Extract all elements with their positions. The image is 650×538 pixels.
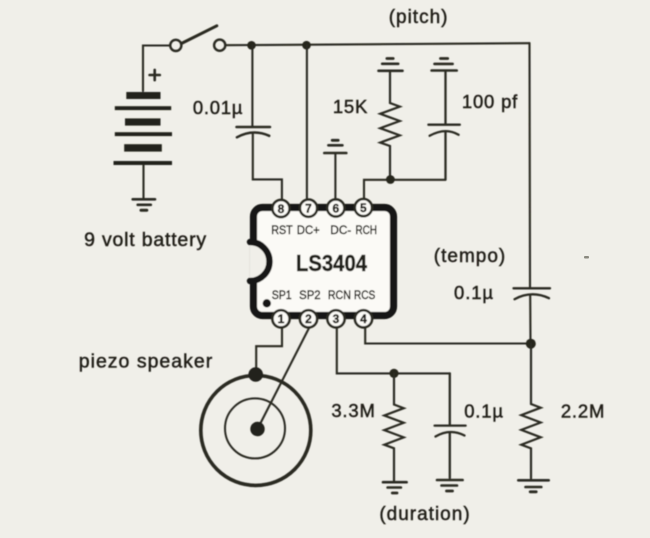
IC U1 pin1 dot (263, 299, 271, 307)
ground above capacitor C2 (points up) (432, 59, 457, 71)
wire C1 top (251, 45, 253, 126)
svg-text:(tempo): (tempo) (434, 246, 506, 267)
ground R2 (383, 482, 407, 493)
svg-text:15K: 15K (333, 96, 368, 117)
battery B1 plates (114, 92, 173, 165)
node junction top rail to C1 (247, 41, 256, 50)
wire pin5 node horizontal (364, 180, 446, 198)
node junction top rail to pin7 (302, 41, 311, 50)
svg-text:SP1: SP1 (272, 288, 292, 302)
node junction pin3 net (389, 369, 398, 378)
svg-text:3: 3 (333, 312, 340, 326)
ground battery (133, 199, 155, 210)
wire right rail upper (528, 43, 531, 288)
capacitor C4 0.1u duration (435, 373, 466, 478)
wire pin 2 to speaker center (258, 328, 310, 429)
wire pin 6 stub (334, 154, 336, 198)
svg-text:7: 7 (305, 202, 312, 216)
IC U1 notch (250, 242, 270, 281)
capacitor C3 0.1u tempo (514, 288, 551, 299)
wire pin 1 to speaker top (256, 328, 282, 369)
ground above pin 6 (points up) (324, 140, 346, 153)
svg-text:6: 6 (332, 201, 339, 215)
pin 7 (300, 200, 317, 217)
wire C1 bottom to pin 8 (253, 134, 282, 199)
wire top rail (pitch) (226, 43, 530, 45)
svg-text:0.1µ: 0.1µ (464, 401, 504, 422)
switch S1 left contact (170, 40, 181, 51)
pin 2 (300, 310, 317, 327)
svg-text:2: 2 (305, 312, 312, 326)
pin 8 (272, 200, 289, 217)
speaker center dot (250, 422, 264, 436)
svg-text:RCS: RCS (354, 288, 376, 302)
node junction R1/C2 to pin 5 (386, 175, 395, 184)
speaker outer circle (201, 375, 311, 485)
svg-text:0.01µ: 0.01µ (193, 97, 243, 118)
wire pin 3 down and right (337, 328, 450, 374)
node junction right rail pin4 (526, 339, 536, 349)
svg-text:0.1µ: 0.1µ (454, 282, 494, 303)
svg-text:100 pf: 100 pf (462, 91, 518, 112)
pin 1 (272, 310, 289, 327)
svg-text:(pitch): (pitch) (389, 7, 449, 28)
ground C4 (437, 480, 463, 491)
svg-text:3.3M: 3.3M (331, 400, 375, 421)
svg-text:RCN: RCN (328, 288, 351, 302)
svg-text:8: 8 (278, 202, 285, 216)
svg-text:LS3404: LS3404 (296, 250, 367, 276)
wire battery bottom to ground (142, 165, 144, 198)
resistor R3 2.2M (521, 344, 540, 479)
pin 6 (327, 199, 344, 216)
wire pin 7 stub (306, 45, 308, 198)
resistor R1 15K (380, 72, 400, 179)
svg-text:RST: RST (271, 223, 293, 237)
svg-text:DC+: DC+ (297, 223, 320, 237)
svg-text:piezo speaker: piezo speaker (79, 351, 213, 373)
node dot speaker top (248, 367, 263, 382)
svg-text:(duration): (duration) (379, 504, 470, 525)
IC U1 LS3404 body (254, 208, 394, 316)
wire right rail lower (529, 296, 531, 344)
battery B1 plus sign (150, 70, 160, 80)
pin 5 (355, 199, 372, 216)
ground R3 (518, 480, 548, 492)
svg-text:DC-: DC- (330, 223, 351, 237)
svg-text:1: 1 (278, 312, 285, 326)
pin 3 (327, 310, 344, 327)
wire pin 4 to right rail (365, 328, 530, 344)
switch S1 lever (182, 26, 217, 44)
svg-text:SP2: SP2 (299, 288, 321, 302)
svg-text:9 volt battery: 9 volt battery (84, 229, 207, 251)
capacitor C1 0.01u (237, 127, 271, 137)
ground above resistor R1 (points up) (379, 59, 403, 71)
pin 4 (355, 310, 372, 327)
speaker inner circle (225, 398, 285, 458)
svg-text:RCH: RCH (355, 223, 377, 237)
svg-text:2.2M: 2.2M (561, 401, 605, 422)
svg-text:5: 5 (360, 201, 367, 215)
svg-text:4: 4 (360, 312, 367, 326)
wire battery top to switch (143, 46, 169, 92)
capacitor C2 100pf (428, 72, 459, 180)
paper speck (584, 256, 589, 259)
switch S1 right contact (214, 40, 225, 51)
resistor R2 3.3M (384, 373, 403, 481)
